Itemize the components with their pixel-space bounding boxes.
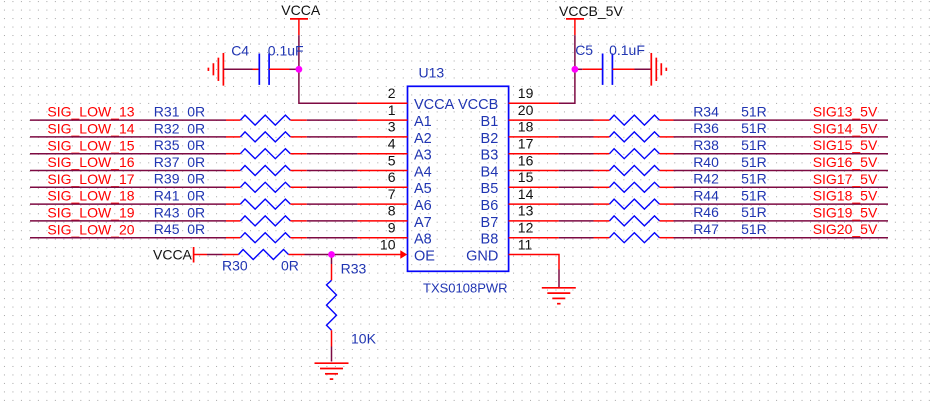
pin 15 stub [509,186,559,188]
resistor R39 0R [226,186,240,188]
pin 16 stub [509,170,559,172]
wire [559,220,594,222]
resistor R33 10K [331,264,333,280]
svg-text:SIG_LOW_17: SIG_LOW_17 [47,171,134,187]
resistor R47 51R [594,237,610,239]
wire [674,186,889,188]
svg-text:SIG_LOW_13: SIG_LOW_13 [47,104,134,120]
resistor R40 51R [594,170,610,172]
svg-text:A1: A1 [414,114,432,130]
svg-text:SIG_LOW_16: SIG_LOW_16 [47,154,134,170]
wire junction down to pin 19 row [559,69,575,103]
svg-text:17: 17 [518,136,534,152]
wire [559,119,594,121]
svg-text:R43: R43 [154,204,180,220]
junction node OE/R30/R33 [328,251,335,258]
wire R33 to ground [331,347,333,362]
svg-text:18: 18 [518,119,534,135]
svg-text:51R: 51R [741,204,767,220]
svg-text:0R: 0R [187,137,205,153]
svg-text:B1: B1 [481,114,499,130]
svg-text:0R: 0R [187,171,205,187]
resistor R44 51R [594,203,610,205]
resistor R41 0R [226,203,240,205]
pin 9 stub [357,237,407,239]
svg-text:8: 8 [388,203,396,219]
wire [307,170,358,172]
junction node VCCA/C4 [296,66,303,73]
svg-text:R44: R44 [693,187,719,203]
svg-text:7: 7 [388,186,396,202]
svg-text:0R: 0R [187,154,205,170]
wire [207,254,223,256]
svg-text:4: 4 [388,136,396,152]
wire [307,136,358,138]
svg-text:51R: 51R [741,120,767,136]
svg-text:51R: 51R [741,137,767,153]
resistor R45 0R [226,237,240,239]
wire [559,170,594,172]
pin 2 stub [357,102,407,104]
svg-text:R46: R46 [693,204,719,220]
wire ground to C4 [223,68,252,70]
svg-text:SIG_LOW_19: SIG_LOW_19 [47,205,134,221]
svg-text:SIG13_5V: SIG13_5V [813,104,878,120]
pin 13 stub [509,220,559,222]
svg-text:SIG15_5V: SIG15_5V [813,137,878,153]
wire junction to OE [332,254,358,256]
ground (below R33) [315,362,349,364]
resistor R30 0R [223,254,239,256]
wire C5 to ground [635,68,652,70]
wire VCCA rail down to junction [298,35,300,69]
svg-text:12: 12 [518,220,534,236]
svg-text:VCCB: VCCB [458,97,498,113]
resistor R43 0R [226,220,240,222]
svg-text:VCCA: VCCA [281,2,321,18]
pin 20 stub [509,119,559,121]
wire [307,153,358,155]
wire [559,237,594,239]
junction node VCCB/C5 [572,66,579,73]
svg-text:C4: C4 [231,42,249,58]
svg-text:SIG_LOW_15: SIG_LOW_15 [47,137,134,153]
svg-text:0R: 0R [187,120,205,136]
wire [30,170,226,172]
pin 14 stub [509,203,559,205]
svg-text:1: 1 [388,102,396,118]
pin 4 stub [357,153,407,155]
svg-text:0R: 0R [187,221,205,237]
svg-text:R30: R30 [222,258,248,274]
resistor R34 51R [594,119,610,121]
wire [674,170,889,172]
wire [30,136,226,138]
svg-text:9: 9 [388,220,396,236]
capacitor C4 0.1uF [253,68,260,70]
wire [30,203,226,205]
wire [30,220,226,222]
svg-text:3: 3 [388,119,396,135]
svg-text:A8: A8 [414,232,432,248]
svg-text:13: 13 [518,203,534,219]
svg-text:11: 11 [518,236,533,252]
pin 7 stub [357,203,407,205]
pin 6 stub [357,186,407,188]
pin 19 stub [509,102,559,104]
svg-text:R31: R31 [154,104,180,120]
svg-text:TXS0108PWR: TXS0108PWR [423,281,508,296]
wire [30,186,226,188]
wire [307,203,358,205]
svg-text:VCCB_5V: VCCB_5V [559,3,623,19]
svg-text:B2: B2 [481,131,499,147]
svg-text:R34: R34 [693,103,719,119]
resistor R42 51R [594,186,610,188]
pin 17 stub [509,153,559,155]
svg-text:VCCA: VCCA [153,246,193,262]
resistor R36 51R [594,136,610,138]
svg-text:A6: A6 [414,198,432,214]
ground (right of C5) [650,53,652,86]
svg-text:B7: B7 [481,215,499,231]
svg-text:R41: R41 [154,188,180,204]
wire [674,119,889,121]
svg-text:B8: B8 [481,232,499,248]
wire [674,237,889,239]
svg-text:51R: 51R [741,221,767,237]
pin 12 stub [509,237,559,239]
resistor R37 0R [226,170,240,172]
wire [30,119,226,121]
wire [559,153,594,155]
svg-text:R39: R39 [154,171,180,187]
svg-text:SIG17_5V: SIG17_5V [813,171,878,187]
svg-text:B5: B5 [481,181,499,197]
wire [674,153,889,155]
svg-text:SIG19_5V: SIG19_5V [813,204,878,220]
svg-text:B6: B6 [481,198,499,214]
wire pin 11 to ground [509,255,559,270]
svg-text:20: 20 [518,102,534,118]
svg-text:19: 19 [518,85,534,101]
svg-text:0R: 0R [187,188,205,204]
svg-text:R36: R36 [693,120,719,136]
svg-text:C5: C5 [575,42,593,58]
svg-text:SIG16_5V: SIG16_5V [813,154,878,170]
pin 10 OE stub with input arrow [358,254,401,256]
wire [307,186,358,188]
svg-text:51R: 51R [741,187,767,203]
ground (left of C4) [222,53,224,86]
svg-text:A3: A3 [414,148,432,164]
svg-text:SIG18_5V: SIG18_5V [813,188,878,204]
wire C4 to junction [290,68,298,70]
svg-text:SIG_LOW_18: SIG_LOW_18 [47,188,134,204]
pin 3 stub [357,136,407,138]
svg-text:SIG20_5V: SIG20_5V [813,221,878,237]
wire [307,220,358,222]
svg-text:51R: 51R [741,103,767,119]
svg-text:0R: 0R [187,204,205,220]
pin 5 stub [357,170,407,172]
wire [30,237,226,239]
svg-text:6: 6 [388,169,396,185]
svg-text:0R: 0R [281,258,299,274]
svg-text:A7: A7 [414,215,432,231]
svg-text:R38: R38 [693,137,719,153]
svg-text:R33: R33 [341,261,367,277]
wire [674,220,889,222]
resistor R38 51R [594,153,610,155]
svg-text:0.1uF: 0.1uF [609,42,645,58]
svg-text:0R: 0R [187,104,205,120]
svg-text:10: 10 [380,236,396,252]
svg-text:51R: 51R [741,171,767,187]
ground (below pin 11) [542,287,576,289]
svg-text:16: 16 [518,152,534,168]
svg-text:2: 2 [388,85,396,101]
op IC U13 TXS0108PWR body [408,86,509,271]
svg-text:A5: A5 [414,181,432,197]
svg-text:VCCA: VCCA [414,97,455,113]
svg-text:OE: OE [414,248,435,264]
svg-text:51R: 51R [741,154,767,170]
resistor R31 0R [226,119,240,121]
svg-text:SIG14_5V: SIG14_5V [813,120,878,136]
svg-text:R42: R42 [693,171,719,187]
svg-text:10K: 10K [351,331,377,347]
svg-text:R37: R37 [154,154,180,170]
svg-text:14: 14 [518,186,534,202]
wire [307,119,358,121]
svg-text:15: 15 [518,169,534,185]
pin 18 stub [509,136,559,138]
svg-text:GND: GND [466,248,498,264]
svg-text:SIG_LOW_14: SIG_LOW_14 [47,121,134,137]
pin 8 stub [357,220,407,222]
wire VCCB rail down to junction [574,35,576,69]
wire [307,237,358,239]
resistor R46 51R [594,220,610,222]
svg-text:A4: A4 [414,164,432,180]
svg-text:R45: R45 [154,221,180,237]
wire [559,136,594,138]
svg-text:5: 5 [388,152,396,168]
wire junction down and right to pin 2 [299,69,357,103]
svg-text:A2: A2 [414,131,432,147]
svg-text:SIG_LOW_20: SIG_LOW_20 [47,221,134,237]
wire [674,136,889,138]
wire [30,153,226,155]
wire [559,203,594,205]
resistor R35 0R [226,153,240,155]
svg-text:R47: R47 [693,221,719,237]
pin 1 stub [357,119,407,121]
svg-text:R32: R32 [154,120,180,136]
svg-text:R40: R40 [693,154,719,170]
resistor R32 0R [226,136,240,138]
svg-text:B4: B4 [481,164,499,180]
capacitor C5 0.1uF [576,68,582,70]
wire [305,254,332,256]
svg-text:U13: U13 [419,64,445,80]
svg-text:B3: B3 [481,148,499,164]
svg-text:R35: R35 [154,137,180,153]
wire [559,186,594,188]
wire junction down to R33 [331,255,333,265]
wire [674,203,889,205]
svg-text:0.1uF: 0.1uF [268,42,304,58]
